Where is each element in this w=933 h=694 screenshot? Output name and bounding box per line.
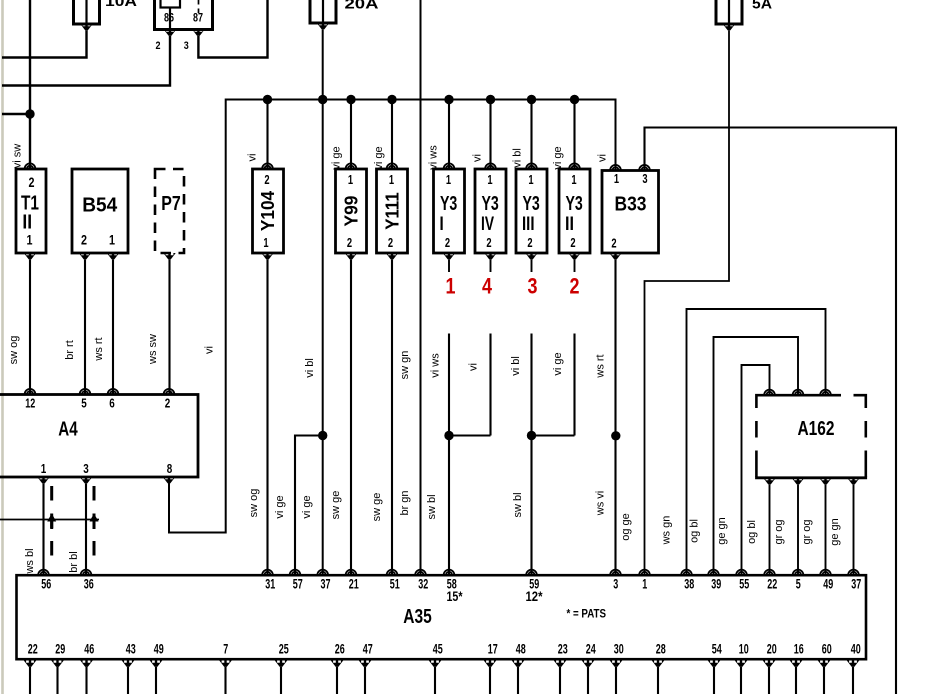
wire A4 pin1 to A35 pin 56 — [42, 484, 44, 576]
wire fuse5A to A35 pin 1 — [645, 31, 730, 576]
svg-text:1: 1 — [348, 173, 353, 187]
svg-text:vi bl: vi bl — [304, 358, 316, 378]
svg-text:1: 1 — [389, 173, 394, 187]
svg-text:37: 37 — [851, 576, 861, 592]
wire A162 to A35 pin 22 — [769, 485, 771, 576]
svg-text:vi: vi — [471, 154, 483, 162]
svg-text:A4: A4 — [58, 419, 78, 441]
svg-text:1: 1 — [446, 274, 456, 299]
svg-text:ge gn: ge gn — [716, 517, 728, 545]
dashed option wire near pin1 — [50, 486, 53, 557]
wire bus to Y3IV pin1 — [489, 100, 491, 170]
svg-text:ge gn: ge gn — [829, 518, 841, 546]
svg-text:2: 2 — [570, 236, 575, 250]
wire Y3II down to branch — [573, 334, 575, 436]
svg-text:15*: 15* — [447, 588, 463, 604]
svg-text:60: 60 — [822, 641, 832, 657]
bus junction dot x=531.5 — [527, 95, 536, 104]
wire B54 pin2 to A4 pin 5 — [84, 260, 86, 395]
svg-text:1: 1 — [571, 173, 576, 187]
svg-text:br bl: br bl — [68, 551, 80, 572]
svg-text:br rt: br rt — [64, 340, 76, 360]
svg-text:br gn: br gn — [399, 490, 411, 515]
svg-text:1: 1 — [27, 232, 33, 248]
wire A162 to A35 pin 37b — [853, 485, 855, 576]
svg-text:10A: 10A — [105, 0, 137, 10]
wire A35 pin39 to A162 — [714, 337, 799, 575]
wire Y3IV down to branch — [489, 334, 491, 436]
A35 top pin 59 — [526, 570, 537, 576]
injector Y3 III — [516, 169, 547, 253]
svg-text:sw ge: sw ge — [371, 493, 383, 522]
wire horizontal y114 — [2, 113, 30, 115]
wire A162 to A35 pin 5 — [797, 485, 799, 576]
svg-text:1: 1 — [642, 576, 647, 592]
svg-text:2: 2 — [264, 173, 269, 187]
svg-text:1: 1 — [446, 173, 451, 187]
svg-text:20A: 20A — [345, 0, 379, 13]
A35 top pin 36 — [81, 570, 92, 576]
svg-text:57: 57 — [293, 576, 303, 592]
svg-text:vi: vi — [247, 154, 259, 162]
wire Y104 pin1 to A35 pin 31 — [266, 260, 268, 576]
svg-text:12: 12 — [25, 396, 35, 411]
A35 top pin 22 — [764, 570, 775, 576]
svg-text:17: 17 — [488, 641, 498, 657]
svg-text:ws vi: ws vi — [595, 491, 607, 516]
svg-text:II: II — [22, 212, 32, 234]
svg-text:4: 4 — [482, 274, 493, 299]
bus junction dot x=449 — [444, 95, 453, 104]
wire B33 pin2 to A35 pin 3 — [614, 260, 616, 576]
svg-text:sw bl: sw bl — [512, 492, 524, 517]
svg-text:5: 5 — [81, 396, 87, 411]
wire fuse20A down to A35 pin 37 — [322, 30, 324, 576]
svg-text:2: 2 — [156, 40, 161, 52]
svg-text:1: 1 — [263, 236, 268, 250]
svg-text:sw bl: sw bl — [426, 494, 438, 519]
wire bus to Y3I pin1 — [448, 100, 450, 170]
bus junction dot x=392 — [387, 95, 396, 104]
wire branch Y3II join — [532, 434, 575, 436]
svg-text:1: 1 — [528, 173, 533, 187]
svg-text:vi ws: vi ws — [430, 353, 442, 378]
svg-text:ws bl: ws bl — [24, 548, 36, 574]
svg-text:sw ge: sw ge — [330, 491, 342, 520]
junction dot (449,435.5) — [444, 431, 453, 440]
arrow up at x94 — [90, 514, 99, 530]
svg-text:2: 2 — [445, 236, 450, 250]
wire branch Y3IV join — [449, 434, 491, 436]
svg-text:3: 3 — [642, 172, 647, 186]
svg-text:* = PATS: * = PATS — [567, 609, 607, 621]
svg-text:2: 2 — [81, 232, 87, 248]
A35 top pin 1 — [639, 570, 650, 576]
svg-text:1: 1 — [41, 461, 47, 476]
svg-text:2: 2 — [486, 236, 491, 250]
A35 top pin 51 — [387, 570, 398, 576]
svg-text:12*: 12* — [526, 588, 543, 604]
bus junction dot x=574.5 — [570, 95, 579, 104]
svg-text:IV: IV — [481, 214, 494, 235]
wire bus to Y111 pin1 — [391, 100, 393, 170]
svg-text:2: 2 — [527, 236, 532, 250]
component P7 (dashed) — [155, 169, 184, 253]
wire Y111 pin2 to A35 pin 51 — [391, 260, 393, 576]
svg-text:49: 49 — [823, 576, 833, 592]
svg-text:2: 2 — [388, 236, 393, 250]
wire bus to Y3II pin1 — [573, 100, 575, 170]
fuse F_5A — [716, 0, 742, 24]
bus wire with A4 pin8 link and B33 pin1 drop — [169, 100, 616, 533]
wire A35 pin55 to A162 — [742, 365, 770, 575]
svg-text:56: 56 — [41, 576, 51, 592]
svg-text:51: 51 — [390, 576, 400, 592]
svg-text:2: 2 — [611, 237, 616, 251]
svg-text:vi ws: vi ws — [427, 145, 439, 170]
injector Y3 IV — [475, 169, 506, 253]
svg-text:7: 7 — [223, 641, 228, 657]
svg-text:og bl: og bl — [689, 519, 701, 543]
svg-text:vi ge: vi ge — [552, 352, 564, 375]
wire B33 pin3 to right edge down — [645, 128, 897, 694]
A35 top pin 3 — [610, 570, 621, 576]
svg-text:Y3: Y3 — [440, 193, 457, 215]
wire P7 to A4 pin 2 — [168, 260, 170, 395]
A35 top pin 38 — [681, 570, 692, 576]
svg-text:8: 8 — [167, 461, 173, 476]
solenoid valve Y99 — [336, 169, 367, 253]
wire branch to A35 pin 57 — [295, 436, 323, 576]
fuse F_20A — [310, 0, 336, 23]
injector Y3 I — [434, 169, 465, 253]
svg-text:21: 21 — [349, 576, 359, 592]
wire relay pin3 up to top — [198, 0, 267, 58]
svg-text:sw og: sw og — [248, 489, 260, 518]
svg-text:Y3: Y3 — [566, 193, 583, 215]
svg-text:vi bl: vi bl — [510, 356, 522, 376]
svg-text:49: 49 — [154, 641, 164, 657]
bus junction dot x=351 — [346, 95, 355, 104]
A35 top pin 37 — [317, 570, 328, 576]
wire A35 pin38 to A162 — [687, 309, 826, 575]
svg-text:A162: A162 — [798, 418, 835, 440]
wire Y3III to A35 pin 59 — [530, 334, 532, 576]
wire A4 pin3 to A35 pin 36 — [85, 484, 87, 576]
svg-text:29: 29 — [55, 641, 65, 657]
fuse F_10A — [74, 0, 100, 24]
svg-text:1: 1 — [487, 173, 492, 187]
component B54 — [72, 169, 128, 253]
junction dot (531.5,435.5) — [527, 431, 536, 440]
dashed option wire near pin3 — [93, 486, 96, 557]
svg-text:36: 36 — [84, 576, 94, 592]
svg-text:10: 10 — [739, 641, 749, 657]
svg-text:2: 2 — [570, 274, 580, 299]
wire horizontal with arrows — [0, 519, 99, 521]
wire Y3I to A35 pin 58 — [448, 334, 450, 576]
A35 top pin 57 — [290, 570, 301, 576]
wire vertical to T1 pin 2 — [29, 0, 31, 169]
A35 top pin 21 — [346, 570, 357, 576]
junction dot (30,114) — [25, 109, 34, 118]
sensor B33 — [602, 171, 659, 254]
svg-text:gr og: gr og — [773, 519, 785, 544]
svg-text:vi ge: vi ge — [331, 146, 343, 169]
svg-text:1: 1 — [614, 172, 619, 186]
svg-text:38: 38 — [684, 576, 694, 592]
svg-text:vi ge: vi ge — [373, 146, 385, 169]
wire fuse10A to left edge — [2, 31, 87, 58]
svg-text:16: 16 — [794, 641, 804, 657]
svg-text:vi: vi — [597, 154, 609, 162]
svg-text:48: 48 — [516, 641, 526, 657]
svg-text:A35: A35 — [403, 606, 432, 628]
svg-text:vi ge: vi ge — [301, 495, 313, 518]
svg-text:87: 87 — [193, 11, 203, 25]
arrow up at x51.7 — [47, 514, 56, 530]
svg-text:55: 55 — [739, 576, 749, 592]
svg-text:3: 3 — [613, 576, 618, 592]
svg-text:vi ge: vi ge — [552, 146, 564, 169]
svg-text:5: 5 — [796, 576, 801, 592]
svg-text:26: 26 — [335, 641, 345, 657]
svg-text:6: 6 — [109, 396, 115, 411]
junction dot (615.8,435.8) — [611, 431, 620, 440]
A35 top pin 58 — [444, 570, 455, 576]
wire B54 pin1 to A4 pin 6 — [112, 260, 114, 395]
wire bus to Y99 pin1 — [350, 100, 352, 170]
svg-text:3: 3 — [184, 40, 189, 52]
svg-text:20: 20 — [767, 641, 777, 657]
svg-text:og ge: og ge — [620, 513, 632, 541]
A35 top pin 31 — [262, 570, 273, 576]
svg-text:vi: vi — [467, 363, 479, 371]
svg-text:I: I — [440, 214, 444, 235]
module A162 (dashed) — [756, 395, 841, 408]
svg-text:54: 54 — [712, 641, 722, 657]
svg-text:sw og: sw og — [8, 336, 20, 365]
svg-text:ws gn: ws gn — [661, 516, 673, 546]
svg-text:Y3: Y3 — [523, 193, 540, 215]
A35 top pin 55 — [736, 570, 747, 576]
junction dot (322.7,435.5) — [318, 431, 327, 440]
svg-text:23: 23 — [558, 641, 568, 657]
svg-text:Y3: Y3 — [482, 193, 499, 215]
control unit A4 — [0, 395, 198, 478]
svg-text:vi: vi — [204, 346, 216, 354]
svg-text:II: II — [565, 214, 574, 235]
A35 top pin 49 — [820, 570, 831, 576]
bus junction dot x=267.5 — [263, 95, 272, 104]
svg-text:B33: B33 — [615, 194, 647, 216]
svg-text:gr og: gr og — [801, 519, 813, 544]
svg-text:5A: 5A — [752, 0, 772, 13]
svg-text:22: 22 — [767, 576, 777, 592]
svg-text:vi bl: vi bl — [511, 148, 523, 168]
component T1 II — [16, 169, 46, 253]
relay K — [155, 0, 213, 30]
svg-text:28: 28 — [656, 641, 666, 657]
svg-text:47: 47 — [363, 641, 373, 657]
svg-text:2: 2 — [347, 236, 352, 250]
svg-text:ws sw: ws sw — [147, 334, 159, 365]
svg-text:og bl: og bl — [746, 520, 758, 544]
svg-text:86: 86 — [164, 11, 174, 25]
solenoid valve Y111 — [377, 169, 408, 253]
A35 top pin 39 — [708, 570, 719, 576]
svg-text:40: 40 — [851, 641, 861, 657]
wire long vertical to A35 pin 32 — [420, 0, 422, 575]
svg-text:Y104: Y104 — [258, 191, 278, 231]
wire bus to Y104 pin2 — [266, 100, 268, 170]
svg-text:25: 25 — [279, 641, 289, 657]
bus junction dot x=322.7 — [318, 95, 327, 104]
svg-text:22: 22 — [28, 641, 38, 657]
svg-text:37: 37 — [321, 576, 331, 592]
injector Y3 II — [559, 169, 590, 253]
svg-text:31: 31 — [265, 576, 275, 592]
svg-text:B54: B54 — [82, 195, 118, 217]
svg-text:ws rt: ws rt — [595, 354, 607, 378]
A35 top pin 56 — [38, 570, 49, 576]
A35 top pin 5 — [793, 570, 804, 576]
page edge strip — [1, 0, 4, 694]
svg-text:vi sw: vi sw — [11, 144, 23, 169]
wire T1 pin1 to A4 pin 12 — [29, 260, 31, 395]
svg-text:45: 45 — [433, 641, 443, 657]
svg-text:2: 2 — [29, 174, 35, 190]
svg-text:1: 1 — [109, 232, 115, 248]
svg-text:P7: P7 — [161, 193, 181, 215]
wire A162 to A35 pin 49 — [825, 485, 827, 576]
svg-text:vi ge: vi ge — [274, 495, 286, 518]
svg-text:30: 30 — [614, 641, 624, 657]
wire bus to Y3III pin1 — [530, 100, 532, 170]
control unit A35 — [17, 575, 867, 659]
bus junction dot x=490.5 — [486, 95, 495, 104]
svg-text:3: 3 — [83, 461, 89, 476]
svg-text:39: 39 — [711, 576, 721, 592]
solenoid valve Y104 — [253, 169, 284, 253]
svg-text:ws rt: ws rt — [93, 337, 105, 361]
wire Y99 pin2 to A35 pin 21 — [350, 260, 352, 576]
svg-text:3: 3 — [528, 274, 538, 299]
svg-text:24: 24 — [586, 641, 596, 657]
svg-text:46: 46 — [84, 641, 94, 657]
wire relay pin2 to left edge — [2, 36, 170, 86]
A35 top pin 37 — [848, 570, 859, 576]
svg-text:32: 32 — [418, 576, 428, 592]
svg-text:III: III — [522, 214, 535, 235]
A35 top pin 32 — [415, 570, 426, 576]
svg-text:43: 43 — [126, 641, 136, 657]
svg-text:Y99: Y99 — [342, 196, 362, 227]
svg-text:2: 2 — [165, 396, 171, 411]
svg-text:sw gn: sw gn — [399, 351, 411, 380]
svg-text:Y111: Y111 — [383, 192, 403, 230]
